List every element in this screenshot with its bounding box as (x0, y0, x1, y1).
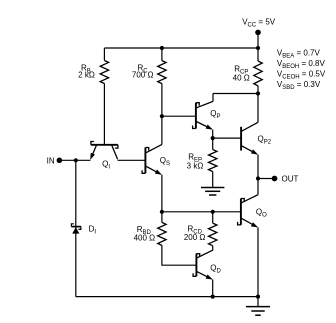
wire: R_B top lead (103, 48, 105, 61)
Q_S collector (146, 144, 162, 152)
wire: VCC stub (257, 32, 259, 48)
svg-text:3 kΩ: 3 kΩ (187, 162, 204, 171)
wire: R_C node to Q_P base (162, 115, 196, 117)
wire: IN to Q_I emitter (59, 159, 90, 161)
wire: OUT stub (258, 178, 272, 180)
wire: Q_P collector up (212, 94, 214, 102)
wire: mid node to Q_O base (162, 211, 241, 213)
VCC terminal dot (255, 30, 261, 36)
svg-text:OUT: OUT (282, 174, 299, 183)
wire: top VCC rail (104, 47, 258, 49)
svg-text:IN: IN (47, 157, 55, 166)
wire: Q_P2 collector up to node (257, 94, 259, 123)
Q_D emitter with arrow (197, 272, 212, 279)
wire: IN node down through D_I to bottom rail (75, 160, 77, 296)
resistor R_B 2k (100, 61, 108, 84)
wire: R_BD top lead (161, 212, 163, 223)
Q_D collector (197, 250, 213, 258)
wire: R_EP top lead (212, 138, 214, 149)
wire: node to Q_P2 base (213, 137, 241, 139)
Q_O emitter with arrow (241, 218, 256, 227)
Q_I emitter with arrow (91, 146, 96, 158)
wire: Q_P emitter down to node (212, 130, 214, 139)
wire: Q_O collector up to OUT node (257, 179, 259, 195)
svg-text:700 Ω: 700 Ω (132, 71, 154, 80)
resistor R_EP 3k (209, 150, 217, 172)
ground (main) (257, 297, 259, 307)
wire: Q_O emitter down to rail (257, 227, 259, 296)
resistor R_C 700 (158, 61, 166, 84)
node: input / D_I junction (74, 158, 78, 162)
transistor Q_P2 (240, 127, 242, 151)
svg-text:200 Ω: 200 Ω (184, 233, 206, 242)
resistor R_CD 200 (209, 223, 217, 246)
Q_O collector (241, 195, 258, 203)
D_I anode triangle (72, 227, 79, 233)
wire: Q_S emitter down to mid node (161, 175, 163, 212)
node: Q_P collector / R_CP / Q_P2 collector (256, 91, 260, 95)
wire: R_C top lead (161, 48, 163, 61)
wire: R_CP top lead (257, 48, 259, 61)
wire: R_B bottom lead to Q_I base (103, 84, 105, 145)
wire: R_EP to ground (212, 172, 214, 188)
node: R_CD top (211, 210, 215, 214)
IN terminal dot (57, 158, 63, 164)
transistor Q_O (240, 199, 242, 225)
node: R_C bottom / Q_S collector / Q_P base (160, 114, 164, 118)
node: Q_P emitter / R_EP / Q_P2 base (211, 136, 215, 140)
Q_P2 collector (242, 122, 258, 131)
wire: Q_S collector to R_C node (161, 116, 163, 144)
wire: R_BD bottom to Q_D base (162, 245, 197, 265)
resistor R_CP 40 (254, 61, 262, 86)
Q_S emitter with arrow (146, 166, 161, 174)
Q_I collector leg (112, 146, 118, 160)
wire: R_C bottom lead (161, 84, 163, 117)
wire: Q_P collector to R_CP node (213, 93, 258, 95)
svg-text:40 Ω: 40 Ω (233, 73, 250, 82)
wire: R_CD top lead (212, 212, 214, 223)
node: Q_O emitter / ground (256, 295, 260, 299)
resistor R_BD 400 (158, 222, 166, 245)
transistor Q_P (195, 103, 197, 129)
D_I cathode bar (71, 226, 81, 228)
Q_P2 emitter with arrow (242, 146, 257, 154)
ground (R_EP) (201, 187, 224, 189)
node: Q_D emitter / rail (211, 295, 215, 299)
OUT terminal dot (272, 176, 278, 182)
svg-text:400 Ω: 400 Ω (134, 233, 156, 242)
svg-text:2 kΩ: 2 kΩ (78, 71, 95, 80)
wire: Q_P2 emitter down to OUT node (257, 155, 259, 179)
wire: Q_I collector to Q_S base (118, 159, 146, 161)
transistor Q_D (195, 254, 197, 277)
transistor Q_I (91, 144, 118, 146)
wire: bottom ground rail (76, 296, 258, 298)
Q_P collector (196, 101, 213, 107)
node: OUT junction (256, 176, 260, 180)
Q_P emitter with arrow (196, 122, 211, 130)
node: rail / R_C junction (160, 46, 164, 50)
transistor Q_S (144, 148, 146, 174)
wire: R_CD bottom lead (212, 246, 214, 251)
node: rail / R_CP junction (256, 46, 260, 50)
wire: R_CP bottom lead (257, 86, 259, 94)
wire: Q_D emitter down to rail (212, 280, 214, 297)
node: Q_S emitter / R_BD / wire (160, 210, 164, 214)
